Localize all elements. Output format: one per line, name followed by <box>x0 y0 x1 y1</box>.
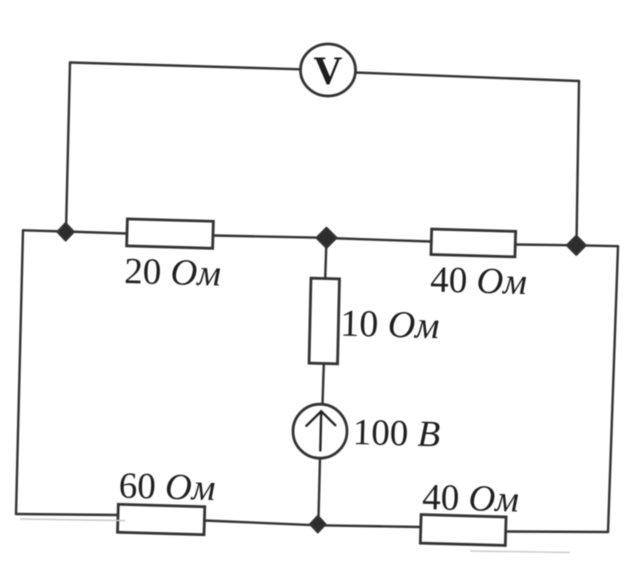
node B junction dot <box>567 236 586 255</box>
wire voltmeter to top-right corner <box>355 73 579 82</box>
node D junction dot <box>310 516 325 532</box>
svg-text:10 Ом: 10 Ом <box>340 303 440 348</box>
svg-text:100 В: 100 В <box>352 412 440 455</box>
wire node C to R2 <box>327 238 432 242</box>
wire ghost echo bottom-right <box>470 551 570 553</box>
wire node A stub left <box>23 230 66 231</box>
resistor R2 40 Om box <box>431 229 516 257</box>
svg-text:40 Ом: 40 Ом <box>430 260 528 304</box>
wire R2 to node B <box>516 243 577 246</box>
resistor R5 40 Om box <box>420 515 506 546</box>
wire right vertical from top corner down to node B <box>577 81 580 244</box>
svg-text:V: V <box>314 48 343 93</box>
wire left vertical from top corner down to node A <box>66 63 70 232</box>
svg-text:40 Ом: 40 Ом <box>422 477 520 521</box>
wire left rail <box>16 230 23 514</box>
wire R4 to node D <box>205 521 319 526</box>
node C junction dot <box>317 228 337 248</box>
resistor R4 60 Om box <box>118 504 205 534</box>
wire R5 to bottom-right corner <box>506 530 608 533</box>
source E1 arrow <box>306 411 335 450</box>
wire bottom-left to R4 <box>16 514 118 515</box>
wire source E1 to node D <box>318 459 320 526</box>
source E1 circle <box>293 404 347 458</box>
svg-text:60 Ом: 60 Ом <box>118 466 216 510</box>
wire R1 to node C <box>213 236 327 238</box>
resistor R1 20 Om box <box>127 219 214 248</box>
wire top-left horizontal to voltmeter <box>70 63 301 70</box>
wire R3 to source E1 <box>323 364 324 405</box>
wire node D to R5 <box>318 525 421 527</box>
node A junction dot <box>58 223 74 240</box>
resistor R3 10 Om box (vertical) <box>309 278 339 364</box>
svg-text:20 Ом: 20 Ом <box>124 251 222 295</box>
wire node C down to R3 <box>325 238 326 279</box>
wire node A to R1 <box>66 232 128 234</box>
wire node B stub right <box>576 244 618 247</box>
wire right rail <box>608 246 618 532</box>
wire ghost echo bottom-left <box>20 519 125 521</box>
voltmeter V1 circle <box>301 44 356 96</box>
